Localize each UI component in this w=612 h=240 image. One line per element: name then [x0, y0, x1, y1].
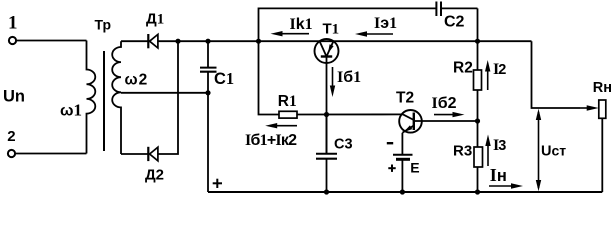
label plus bottom [213, 179, 222, 188]
wire top rail with left column [259, 8, 437, 41]
svg-text:2: 2 [7, 128, 15, 145]
wire collector rail to Rn [532, 41, 581, 108]
svg-text:ω1: ω1 [60, 101, 82, 120]
wire collector rail y41 [158, 40, 532, 42]
svg-text:Iн: Iн [490, 165, 507, 185]
svg-text:Iэ1: Iэ1 [374, 15, 397, 32]
transformer TP primary winding w1 [87, 41, 96, 154]
svg-text:1: 1 [8, 13, 18, 34]
wire D2 output up to collector rail [158, 41, 178, 154]
svg-text:ω2: ω2 [125, 71, 148, 88]
diode D2 [148, 147, 158, 161]
resistor R1 [279, 111, 297, 118]
wire bottom rail [208, 191, 602, 193]
svg-text:Iб2: Iб2 [432, 95, 457, 112]
svg-text:Д1: Д1 [146, 10, 164, 27]
svg-text:Д2: Д2 [145, 167, 164, 184]
svg-text:Тр: Тр [95, 17, 112, 33]
arrow Ie1 [355, 31, 393, 36]
node terminal 2 [8, 150, 15, 157]
node junction T2 collector - R2R3 [475, 118, 480, 123]
battery E [393, 155, 413, 192]
resistor R2 [474, 41, 482, 147]
transformer core [103, 51, 105, 151]
wire terminal1 to primary top [16, 40, 86, 42]
svg-text:R2: R2 [453, 60, 473, 77]
arrow Ib1 [330, 67, 335, 97]
arrow Ib1+Ik2 [265, 123, 297, 128]
arrow I3 [485, 135, 490, 167]
node junction base wire [324, 112, 329, 117]
svg-text:Iб1+Iк2: Iб1+Iк2 [245, 132, 297, 149]
node junction R3-rail [475, 189, 480, 194]
resistor Rn [599, 100, 606, 118]
capacitor C2 [436, 2, 477, 17]
node junction center tap [205, 90, 210, 95]
transistor T2 [399, 110, 477, 133]
wire center tap [121, 92, 208, 94]
arrow Ik1 [271, 31, 310, 36]
wire secondary top to diode D1 [121, 40, 148, 42]
svg-text:Rн: Rн [593, 80, 612, 96]
wire Rn bottom to rail [601, 118, 603, 192]
svg-text:I2: I2 [493, 61, 506, 78]
wire R1 to T2 base [297, 113, 403, 115]
resistor R3 [474, 147, 483, 192]
wire top rail down to R2 column [477, 8, 479, 41]
wire left column down to R1 [259, 41, 280, 114]
arrow to Rn [580, 105, 599, 110]
svg-text:R3: R3 [453, 143, 472, 160]
transformer secondary winding w2 [112, 41, 121, 154]
wire terminal2 to primary bottom [15, 153, 86, 155]
label plus battery [388, 165, 395, 172]
svg-text:Iб1: Iб1 [337, 69, 361, 86]
node junction C3-rail [324, 189, 329, 194]
svg-text:I3: I3 [493, 137, 506, 154]
arrow I2 [485, 60, 490, 90]
diode D1 [148, 34, 158, 48]
wire secondary bottom to diode D2 [121, 153, 148, 155]
svg-text:C3: C3 [334, 137, 353, 153]
transistor T1 [315, 39, 339, 63]
arrow Ust measure [536, 109, 541, 191]
arrow Ib2 [434, 112, 465, 117]
capacitor C1 [200, 41, 217, 192]
svg-text:C1: C1 [214, 69, 234, 88]
node junction R2 column-rail [475, 39, 480, 44]
svg-text:C2: C2 [444, 14, 465, 31]
node junction C1-rail [205, 39, 210, 44]
svg-text:Т2: Т2 [396, 89, 414, 106]
node junction E-rail [400, 189, 405, 194]
svg-text:Uст: Uст [541, 143, 566, 160]
svg-text:R1: R1 [278, 93, 297, 110]
capacitor C3 [316, 115, 337, 193]
wire T1 base down [326, 57, 328, 154]
node junction left column-rail [256, 39, 261, 44]
svg-text:Т1: Т1 [323, 21, 340, 38]
svg-text:Е: Е [410, 160, 419, 176]
label minus [387, 142, 393, 144]
svg-text:Un: Un [3, 88, 25, 106]
node junction D2-rail [175, 39, 180, 44]
node terminal 1 [9, 37, 16, 44]
wire T2 emitter down [401, 133, 403, 154]
arrow In [489, 183, 523, 188]
svg-text:Ik1: Ik1 [290, 16, 313, 33]
